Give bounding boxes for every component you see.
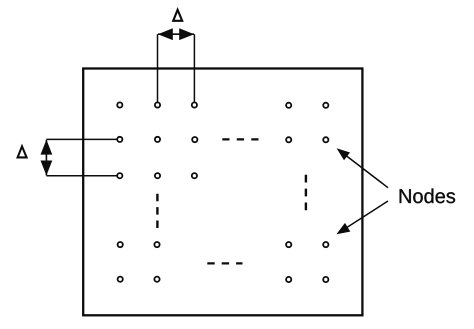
left-column vertical continuation dashes <box>156 194 158 229</box>
node r1c5 <box>323 103 328 108</box>
bottom continuation dashes <box>207 262 242 264</box>
extension line from left arrow to node r2c1 <box>46 138 116 140</box>
node r5c5 <box>323 277 328 282</box>
node r1c1 <box>117 102 122 107</box>
node r4c2 <box>154 242 159 247</box>
right-side vertical continuation dashes <box>305 175 307 211</box>
boundary box <box>83 69 362 316</box>
node r5c4 <box>286 277 291 282</box>
node r2c2 <box>155 137 160 142</box>
node r5c2 <box>154 277 159 282</box>
node r4c4 <box>286 242 291 247</box>
node r1c3 <box>192 102 197 107</box>
node r2c4 <box>286 137 291 142</box>
label: left grid-spacing delta <box>18 146 27 157</box>
node r2c5 <box>323 137 328 142</box>
node r2c3 <box>192 137 197 142</box>
node r1c4 <box>286 103 291 108</box>
label: Nodes <box>400 189 455 204</box>
extension line from left arrow to node r3c1 <box>46 175 116 177</box>
node r3c2 <box>155 173 160 178</box>
node r2c1 <box>117 137 122 142</box>
node r3c3 <box>192 173 197 178</box>
extension line from top arrow to node r1c3 <box>193 34 195 101</box>
label: top grid-spacing delta <box>173 10 182 21</box>
node r1c2 <box>155 102 160 107</box>
top horizontal double-headed dimension arrow <box>158 28 194 40</box>
pointer arrow to node r4c5 <box>336 201 388 234</box>
node r4c5 <box>323 242 328 247</box>
node r4c1 <box>118 242 123 247</box>
left vertical double-headed dimension arrow <box>41 140 53 176</box>
extension line from top arrow to node r1c2 <box>157 34 159 101</box>
node r5c1 <box>118 277 123 282</box>
pointer arrow to node r2c5 <box>337 148 388 188</box>
row-2 continuation dashes <box>222 138 259 140</box>
node r3c1 <box>117 173 122 178</box>
